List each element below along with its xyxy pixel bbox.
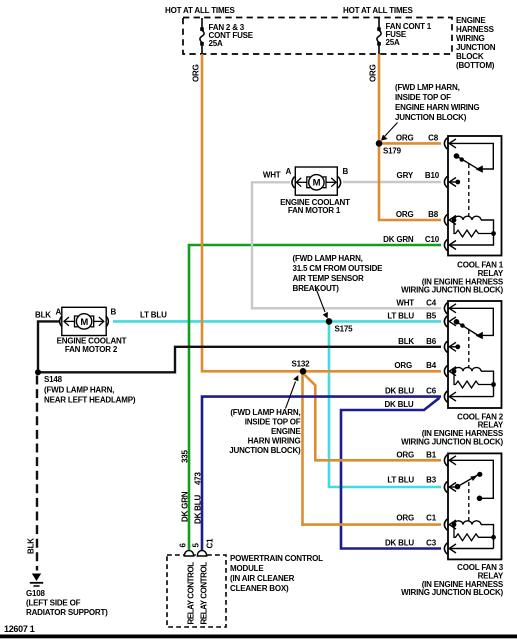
svg-text:CLEANER BOX): CLEANER BOX): [230, 584, 289, 593]
svg-text:INSIDE TOP OF: INSIDE TOP OF: [245, 418, 301, 427]
svg-text:C1: C1: [206, 538, 215, 549]
label COOL FAN 2 RELAY (IN ENGINE HARNESS WIRING JUNCTION BLOCK): [401, 412, 504, 446]
svg-text:HOT AT ALL TIMES: HOT AT ALL TIMES: [165, 6, 236, 15]
pin 6 connector of PCM: [184, 551, 193, 556]
svg-text:G108: G108: [26, 589, 46, 598]
node S179: [376, 140, 383, 147]
svg-text:DK BLU: DK BLU: [194, 495, 203, 524]
svg-text:BLK: BLK: [27, 538, 36, 554]
relay K2 coil with parallel resistor: [449, 367, 496, 396]
svg-text:ORG: ORG: [394, 361, 412, 370]
pin C8 connector of relay K1: [444, 138, 456, 149]
wire ORG run into relay K3 pin C1: [301, 523, 441, 526]
svg-text:(FWD LAMP HARN,: (FWD LAMP HARN,: [230, 408, 300, 417]
svg-text:LT BLU: LT BLU: [387, 311, 414, 320]
svg-text:HARN WIRING: HARN WIRING: [248, 437, 301, 446]
relay K1 switch contact arrow tip: [476, 165, 483, 172]
svg-text:DK BLU: DK BLU: [385, 387, 414, 396]
relay K3 fixed contact dot: [477, 496, 483, 502]
value label FAN 2 & 3 CONT FUSE 25A: [209, 23, 254, 48]
svg-text:DK BLU: DK BLU: [384, 400, 413, 409]
svg-text:(FWD LAMP HARN,: (FWD LAMP HARN,: [293, 254, 363, 263]
svg-text:B6: B6: [426, 337, 437, 346]
svg-text:RELAY CONTROL: RELAY CONTROL: [200, 562, 209, 625]
svg-text:C3: C3: [426, 539, 437, 548]
relay K3 actuation dashed link: [468, 482, 470, 521]
svg-text:DK GRN: DK GRN: [181, 491, 190, 522]
svg-text:ORG: ORG: [396, 514, 414, 523]
relay K2 pin B6 stub: [449, 344, 460, 349]
wire DK BLU from relay K2 pin C6 to PCM pin 5: [202, 397, 441, 553]
svg-text:B3: B3: [426, 476, 437, 485]
label ENGINE COOLANT FAN MOTOR 1: [280, 198, 350, 215]
wire ORG from S179 right to relay K1 pin C8: [379, 142, 441, 145]
svg-text:ORG: ORG: [396, 210, 414, 219]
svg-text:(IN AIR CLEANER: (IN AIR CLEANER: [230, 574, 295, 583]
wire BLK from motor M2 pin A through S148 to relay K2 pin B6: [38, 321, 441, 372]
relay K2 actuation dashed link: [468, 330, 470, 368]
svg-text:M: M: [313, 178, 321, 189]
svg-text:WHT: WHT: [263, 171, 281, 180]
svg-text:ORG: ORG: [369, 64, 378, 82]
value label FAN CONT 1 FUSE 25A: [386, 22, 432, 47]
wire WHT from motor M1 pin A to relay K2 pin C4: [252, 182, 441, 308]
wire GRY from motor M1 pin B to relay K1 pin B10: [343, 181, 441, 183]
svg-text:M: M: [80, 317, 88, 328]
svg-text:A: A: [286, 167, 292, 176]
relay K2 COOL FAN 2 RELAY outline: [448, 301, 502, 408]
relay K1 COOL FAN 1 RELAY outline: [448, 136, 502, 256]
pin C4 connector of relay K2: [444, 303, 456, 314]
svg-text:31.5 CM FROM OUTSIDE: 31.5 CM FROM OUTSIDE: [293, 264, 384, 273]
svg-text:POWERTRAIN CONTROL: POWERTRAIN CONTROL: [230, 554, 323, 563]
junction block (bottom) dashed enclosure: [183, 18, 452, 55]
svg-text:335: 335: [181, 450, 190, 463]
relay K1 switch fixed path from pin C8: [449, 143, 493, 169]
svg-text:BLK: BLK: [35, 311, 51, 320]
svg-text:AIR TEMP SENSOR: AIR TEMP SENSOR: [293, 274, 365, 283]
svg-text:LT BLU: LT BLU: [387, 476, 414, 485]
svg-text:ENGINE: ENGINE: [271, 427, 301, 436]
relay K3 switch fixed path from pin B1: [449, 460, 493, 498]
wire ORG from fuse F2 down to S179 then to relay K1 pin B8: [379, 54, 441, 220]
svg-text:C6: C6: [426, 387, 437, 396]
svg-text:S132: S132: [292, 360, 311, 369]
svg-text:MODULE: MODULE: [230, 564, 264, 573]
svg-text:WIRING: WIRING: [456, 34, 485, 43]
pin C1 connector of relay K3: [444, 519, 456, 530]
svg-text:RADIATOR SUPPORT): RADIATOR SUPPORT): [26, 608, 108, 617]
svg-text:GRY: GRY: [397, 171, 414, 180]
svg-text:INSIDE TOP OF: INSIDE TOP OF: [395, 93, 451, 102]
svg-text:C1: C1: [426, 514, 437, 523]
svg-text:473: 473: [194, 472, 203, 485]
relay K3 COOL FAN 3 RELAY outline: [448, 453, 502, 559]
svg-text:JUNCTION BLOCK): JUNCTION BLOCK): [229, 446, 301, 455]
wire DK GRN from relay K1 pin C10 to PCM pin 6: [189, 245, 441, 553]
label ENGINE HARNESS WIRING JUNCTION BLOCK (BOTTOM): [456, 16, 496, 70]
motor M1 ENGINE COOLANT FAN MOTOR 1: [292, 167, 341, 195]
svg-text:ENGINE: ENGINE: [456, 16, 486, 25]
svg-text:JUNCTION: JUNCTION: [456, 43, 496, 52]
svg-text:(FWD LAMP HARN,: (FWD LAMP HARN,: [44, 386, 114, 395]
label G108 (LEFT SIDE OF RADIATOR SUPPORT): [26, 589, 108, 617]
svg-text:B1: B1: [426, 450, 437, 459]
label COOL FAN 3 RELAY (IN ENGINE HARNESS WIRING JUNCTION BLOCK): [401, 563, 504, 597]
svg-text:LT BLU: LT BLU: [140, 311, 167, 320]
svg-text:B10: B10: [425, 171, 440, 180]
leader arrow from note to node S132: [286, 375, 299, 408]
pin B5 connector of relay K2: [444, 316, 456, 327]
pin B10 connector of relay K1: [444, 176, 456, 187]
node S132: [300, 368, 307, 375]
wire ORG from fuse F1 down then right to S132 and relay K2 pin B4: [202, 54, 441, 371]
svg-text:B8: B8: [428, 210, 439, 219]
svg-text:B: B: [111, 308, 117, 317]
relay K3 coil with parallel resistor: [449, 521, 496, 549]
svg-text:C4: C4: [426, 298, 437, 307]
fuse F2 FAN CONT 1 FUSE 25A: [377, 18, 381, 54]
relay K3 switch movable arm with arrow: [449, 472, 482, 490]
wire LT BLU from motor M2 pin B through S175 to relay K2 pin B5: [113, 320, 441, 323]
pin B1 connector of relay K3: [444, 455, 456, 466]
wire ORG riser from S132 toward relay K3 pin C1: [301, 373, 304, 526]
svg-text:B5: B5: [426, 311, 437, 320]
svg-text:DK BLU: DK BLU: [385, 539, 414, 548]
svg-text:A: A: [56, 308, 62, 317]
pin C3 connector of relay K3: [444, 543, 456, 554]
leader arrow from note to node S175: [315, 286, 328, 319]
svg-text:S179: S179: [383, 147, 402, 156]
pin B3 connector of relay K3: [444, 481, 456, 492]
wire BLK dashed from S148 down to ground G108: [36, 376, 38, 571]
label ENGINE COOLANT FAN MOTOR 2: [57, 337, 127, 355]
powertrain control module U1 dashed enclosure: [167, 555, 226, 627]
svg-text:ORG: ORG: [192, 64, 201, 82]
wire ORG run into relay K3 pin B1: [314, 459, 441, 462]
svg-text:ENGINE HARN WIRING: ENGINE HARN WIRING: [395, 103, 479, 112]
pin B4 connector of relay K2: [444, 366, 456, 377]
svg-text:S175: S175: [335, 325, 354, 334]
fuse F1 FAN 2 & 3 CONT FUSE 25A: [200, 18, 204, 54]
motor M2 ENGINE COOLANT FAN MOTOR 2: [60, 307, 109, 335]
leader arrow from note to node S179: [381, 123, 398, 141]
label POWERTRAIN CONTROL MODULE (IN AIR CLEANER CLEANER BOX): [230, 554, 323, 593]
svg-text:C8: C8: [428, 133, 439, 142]
relay K1 pin B10 stub: [449, 180, 460, 185]
svg-text:JUNCTION BLOCK): JUNCTION BLOCK): [395, 113, 467, 122]
svg-text:WHT: WHT: [396, 298, 414, 307]
wire ORG branch riser from S132 toward relay K3 pin B1: [305, 375, 316, 462]
svg-text:C10: C10: [425, 235, 440, 244]
svg-text:(BOTTOM): (BOTTOM): [456, 61, 495, 70]
svg-text:RELAY CONTROL: RELAY CONTROL: [187, 562, 196, 625]
ground G108: [30, 574, 43, 587]
svg-text:BLOCK: BLOCK: [456, 52, 484, 61]
svg-text:WIRING JUNCTION BLOCK): WIRING JUNCTION BLOCK): [401, 286, 503, 295]
svg-text:NEAR LEFT HEADLAMP): NEAR LEFT HEADLAMP): [44, 396, 136, 405]
note (FWD LAMP HARN, INSIDE TOP OF ENGINE HARN WIRING JUNCTION BLOCK) at S132: [229, 408, 301, 455]
note (FWD LMP HARN, INSIDE TOP OF ENGINE HARN WIRING JUNCTION BLOCK): [395, 83, 479, 122]
label S148 (FWD LAMP HARN, NEAR LEFT HEADLAMP): [44, 375, 136, 405]
relay K1 actuation dashed link: [468, 164, 470, 216]
svg-text:25A: 25A: [386, 38, 400, 47]
relay K2 switch contact arrow tip: [476, 332, 483, 339]
svg-text:ORG: ORG: [396, 133, 414, 142]
wire DK BLU second leg from pin C6 to relay K3 pin C3: [341, 398, 441, 549]
note (FWD LAMP HARN, 31.5 CM FROM OUTSIDE AIR TEMP SENSOR BREAKOUT): [293, 254, 384, 293]
relay K1 switch movable arm: [454, 153, 478, 169]
svg-text:B: B: [343, 167, 349, 176]
pin B8 connector of relay K1: [444, 214, 456, 225]
svg-text:ORG: ORG: [396, 450, 414, 459]
svg-text:BLK: BLK: [398, 337, 414, 346]
svg-text:HOT AT ALL TIMES: HOT AT ALL TIMES: [343, 6, 414, 15]
svg-text:12607 1: 12607 1: [4, 624, 35, 634]
svg-text:25A: 25A: [209, 39, 223, 48]
svg-text:HARNESS: HARNESS: [456, 25, 495, 34]
label COOL FAN 1 RELAY (IN ENGINE HARNESS WIRING JUNCTION BLOCK): [401, 261, 504, 295]
svg-text:B4: B4: [426, 361, 437, 370]
node S175: [326, 318, 333, 325]
bottom border bar: [0, 635, 517, 639]
pin B6 connector of relay K2: [444, 341, 456, 352]
svg-text:DK GRN: DK GRN: [383, 235, 414, 244]
svg-text:WIRING JUNCTION BLOCK): WIRING JUNCTION BLOCK): [401, 438, 503, 447]
svg-text:(FWD LMP HARN,: (FWD LMP HARN,: [395, 83, 460, 92]
pin 5 connector of PCM: [197, 551, 206, 556]
svg-text:S148: S148: [44, 375, 63, 384]
relay K1 coil with parallel resistor: [449, 216, 496, 245]
pin C6 connector of relay K2: [444, 391, 456, 402]
node S148: [35, 369, 41, 375]
svg-text:(LEFT SIDE OF: (LEFT SIDE OF: [26, 599, 81, 608]
svg-text:WIRING JUNCTION BLOCK): WIRING JUNCTION BLOCK): [401, 588, 503, 597]
relay K2 switch movable arm: [454, 319, 478, 335]
wire LT BLU from S175 down to relay K3 pin B3: [329, 321, 441, 487]
relay K2 switch fixed path from pin C4: [449, 308, 493, 335]
pin C10 connector of relay K1: [444, 239, 456, 250]
svg-text:FAN MOTOR 1: FAN MOTOR 1: [288, 206, 341, 215]
svg-text:FAN MOTOR 2: FAN MOTOR 2: [65, 345, 118, 354]
